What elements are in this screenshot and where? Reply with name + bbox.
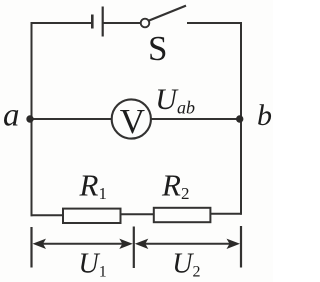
svg-text:U2: U2 xyxy=(172,248,200,280)
voltmeter V xyxy=(112,99,151,140)
wire left vertical xyxy=(31,22,33,216)
svg-text:a: a xyxy=(3,98,20,134)
svg-text:Uab: Uab xyxy=(155,83,195,118)
dimension arrow U2 xyxy=(135,239,240,281)
svg-text:S: S xyxy=(148,29,167,68)
wire top-left to battery xyxy=(31,22,93,24)
svg-text:U1: U1 xyxy=(79,248,107,280)
svg-text:V: V xyxy=(120,102,145,141)
wire right vertical xyxy=(240,22,242,215)
wire battery to switch xyxy=(103,22,141,24)
battery plates xyxy=(92,7,102,37)
dimension arrow U1 xyxy=(33,239,133,281)
node a xyxy=(3,98,34,134)
wire switch to top-right corner xyxy=(187,22,242,24)
svg-text:R1: R1 xyxy=(79,167,107,203)
dimension tick middle xyxy=(133,227,135,269)
wire bottom-left to R1 xyxy=(31,214,64,216)
wire R2 to bottom-right xyxy=(211,213,242,215)
resistor R2 xyxy=(154,167,211,222)
svg-text:R2: R2 xyxy=(161,167,189,203)
wire R1 to R2 xyxy=(121,213,154,215)
wire node a to voltmeter xyxy=(31,118,112,120)
svg-text:b: b xyxy=(257,99,272,132)
dimension tick left xyxy=(30,227,32,268)
node b xyxy=(236,99,272,132)
wire voltmeter to node b xyxy=(152,118,242,120)
resistor R1 xyxy=(63,167,121,223)
dimension tick right xyxy=(240,226,242,268)
switch S xyxy=(141,6,186,28)
